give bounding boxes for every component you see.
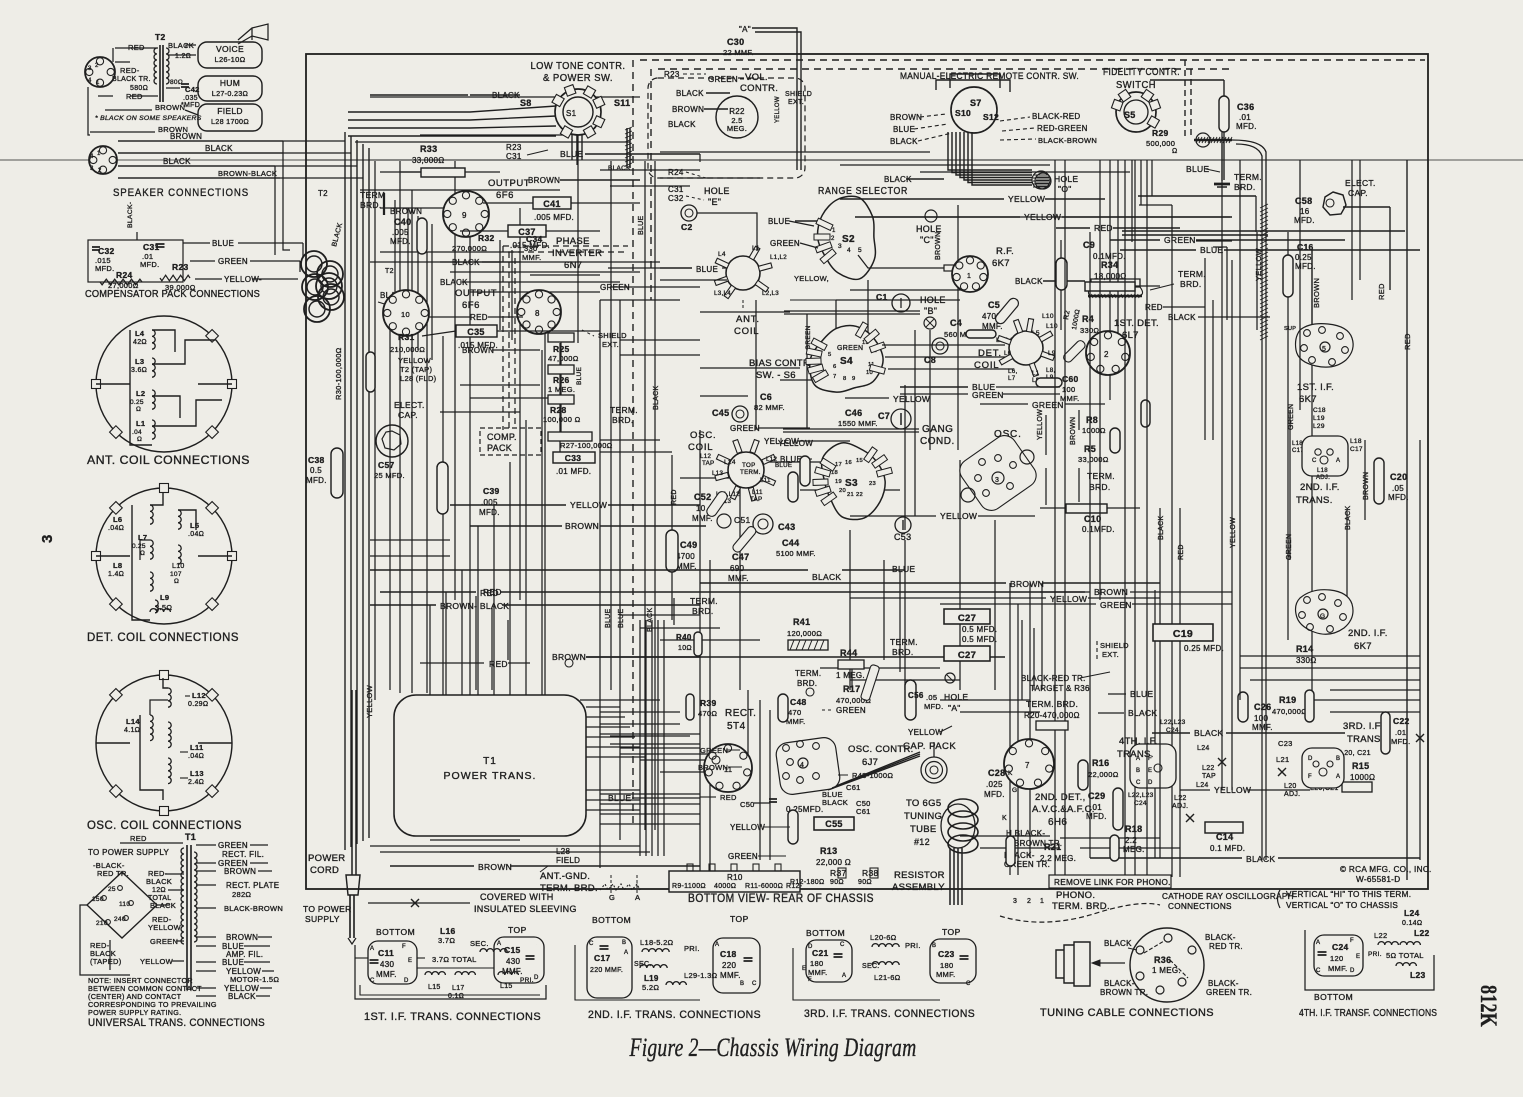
svg-text:D: D: [1350, 968, 1355, 974]
svg-text:BOTTOM: BOTTOM: [806, 928, 845, 938]
svg-text:180: 180: [810, 959, 823, 968]
svg-text:2ND. I.F.: 2ND. I.F.: [1348, 628, 1388, 639]
svg-text:C11: C11: [378, 948, 394, 958]
svg-text:BLACK: BLACK: [647, 608, 654, 632]
svg-text:TUNING: TUNING: [904, 811, 942, 822]
svg-text:L11: L11: [752, 489, 763, 496]
svg-text:10: 10: [401, 310, 410, 319]
svg-text:R8: R8: [1086, 415, 1098, 425]
svg-text:VOL.: VOL.: [745, 72, 768, 83]
svg-text:2: 2: [1027, 898, 1031, 905]
svg-text:20: 20: [839, 488, 846, 494]
svg-text:TERM.: TERM.: [1178, 269, 1206, 279]
svg-text:L17: L17: [452, 985, 465, 992]
svg-text:0.25: 0.25: [1295, 253, 1312, 262]
svg-text:C32: C32: [98, 246, 115, 256]
svg-text:0.29Ω: 0.29Ω: [188, 701, 208, 708]
svg-text:#12: #12: [914, 837, 930, 847]
svg-text:"A": "A": [739, 25, 751, 34]
svg-text:RED: RED: [470, 313, 488, 322]
svg-text:L20, C21: L20, C21: [1340, 750, 1371, 757]
svg-text:E: E: [1356, 954, 1360, 960]
svg-text:BLUE: BLUE: [892, 564, 915, 574]
svg-text:MFD.: MFD.: [390, 237, 411, 246]
svg-text:4.1Ω: 4.1Ω: [124, 727, 140, 734]
svg-text:C28: C28: [988, 768, 1005, 778]
svg-text:R24: R24: [116, 270, 133, 280]
svg-text:2: 2: [95, 63, 99, 69]
svg-text:RED: RED: [1178, 544, 1185, 560]
svg-text:C: C: [370, 978, 375, 984]
svg-text:210,000Ω: 210,000Ω: [390, 345, 425, 354]
svg-text:ADJ.: ADJ.: [1316, 475, 1330, 481]
svg-text:.01: .01: [1395, 728, 1406, 737]
svg-text:R15: R15: [1352, 761, 1369, 771]
svg-text:5T4: 5T4: [727, 721, 746, 732]
svg-text:GREEN: GREEN: [972, 390, 1004, 400]
svg-text:R18: R18: [1125, 824, 1142, 834]
svg-text:D: D: [1308, 756, 1313, 762]
svg-text:TARGET & R36: TARGET & R36: [1030, 684, 1090, 693]
svg-text:"B": "B": [924, 306, 937, 316]
svg-text:GREEN: GREEN: [150, 937, 178, 946]
svg-text:C48: C48: [790, 697, 807, 707]
svg-text:L22,L23: L22,L23: [1160, 719, 1186, 726]
svg-text:PRI.: PRI.: [1368, 951, 1382, 958]
svg-text:.005 MFD.: .005 MFD.: [534, 213, 574, 222]
svg-text:6H6: 6H6: [1048, 817, 1067, 828]
svg-text:K: K: [1008, 770, 1013, 777]
svg-text:TERM. BRD.: TERM. BRD.: [1026, 699, 1078, 709]
svg-text:R12-180Ω: R12-180Ω: [790, 879, 824, 886]
svg-text:25: 25: [108, 886, 116, 893]
svg-text:C4: C4: [950, 318, 962, 328]
svg-text:L2,L3: L2,L3: [762, 290, 779, 297]
svg-text:3.7Ω: 3.7Ω: [438, 936, 455, 945]
svg-text:16: 16: [845, 460, 852, 466]
svg-text:C47: C47: [732, 552, 749, 562]
svg-text:R41: R41: [793, 617, 810, 627]
svg-text:BROWN- BLACK: BROWN- BLACK: [440, 601, 509, 611]
svg-text:0.1 MFD.: 0.1 MFD.: [1210, 844, 1245, 853]
svg-text:TOP: TOP: [742, 462, 756, 469]
svg-text:23: 23: [869, 481, 876, 487]
svg-text:L24: L24: [1196, 782, 1209, 789]
svg-text:COMP.: COMP.: [487, 432, 517, 442]
svg-text:82 MMF.: 82 MMF.: [754, 403, 785, 412]
svg-text:OSC.: OSC.: [690, 430, 716, 441]
svg-text:TERM. BRD.: TERM. BRD.: [1052, 901, 1110, 912]
svg-text:S11: S11: [614, 98, 630, 108]
svg-text:L26-10Ω: L26-10Ω: [214, 55, 245, 64]
svg-text:BROWN: BROWN: [1094, 587, 1128, 597]
svg-text:MMF.: MMF.: [786, 717, 806, 726]
svg-text:5: 5: [1322, 346, 1326, 353]
svg-text:GREEN: GREEN: [837, 345, 863, 352]
svg-text:1000Ω: 1000Ω: [1350, 773, 1375, 782]
svg-text:2.2: 2.2: [1125, 836, 1137, 845]
svg-text:5100 MMF.: 5100 MMF.: [776, 549, 816, 558]
svg-text:C61: C61: [846, 783, 861, 792]
svg-text:L20-6Ω: L20-6Ω: [870, 933, 897, 942]
svg-text:"C": "C": [920, 235, 934, 245]
svg-text:K: K: [1002, 815, 1007, 822]
svg-text:R36: R36: [1154, 955, 1171, 965]
svg-text:TO POWER: TO POWER: [303, 904, 352, 914]
svg-text:1550 MMF.: 1550 MMF.: [838, 419, 878, 428]
svg-text:L14: L14: [126, 717, 140, 726]
svg-text:A: A: [1316, 940, 1320, 946]
svg-text:C21: C21: [812, 948, 829, 958]
svg-text:ELECT.: ELECT.: [1345, 178, 1376, 188]
svg-text:BLACK-: BLACK-: [1205, 933, 1236, 942]
svg-text:TERM.: TERM.: [740, 469, 761, 476]
svg-text:YELLOW: YELLOW: [730, 823, 765, 832]
svg-text:BLUE: BLUE: [1200, 245, 1223, 255]
svg-text:110: 110: [119, 901, 130, 908]
svg-text:2ND. DET.,: 2ND. DET.,: [1035, 792, 1086, 803]
svg-text:C: C: [966, 981, 971, 987]
svg-text:MFD.: MFD.: [924, 702, 944, 711]
svg-text:C27: C27: [958, 613, 976, 624]
svg-text:A: A: [497, 941, 501, 947]
svg-text:BOTTOM: BOTTOM: [1314, 992, 1353, 1002]
svg-text:R24: R24: [668, 168, 684, 177]
svg-text:C61: C61: [856, 807, 871, 816]
svg-text:TAP: TAP: [750, 496, 762, 503]
svg-text:.05: .05: [1392, 484, 1404, 493]
svg-text:BLACK-BROWN: BLACK-BROWN: [1038, 136, 1097, 145]
svg-text:3: 3: [88, 66, 92, 72]
svg-text:CAP.: CAP.: [398, 410, 418, 420]
svg-text:BOTTOM: BOTTOM: [592, 915, 631, 925]
svg-text:CAP. PACK: CAP. PACK: [903, 741, 956, 752]
svg-text:HUM: HUM: [220, 78, 240, 88]
svg-text:RECT. FIL.: RECT. FIL.: [222, 850, 264, 859]
svg-text:S3: S3: [845, 478, 858, 489]
svg-text:1: 1: [1040, 898, 1044, 905]
svg-text:HOLE: HOLE: [704, 186, 730, 196]
svg-text:240: 240: [114, 916, 126, 923]
svg-text:MFD.: MFD.: [1388, 493, 1409, 502]
svg-text:3.5Ω: 3.5Ω: [155, 603, 172, 612]
svg-text:FIELD: FIELD: [556, 856, 580, 865]
svg-text:BROWN: BROWN: [565, 521, 599, 531]
svg-text:UNIVERSAL TRANS. CONNECTIONS: UNIVERSAL TRANS. CONNECTIONS: [88, 1017, 265, 1029]
svg-text:L11: L11: [190, 743, 203, 752]
svg-text:EXT.: EXT.: [1102, 650, 1119, 659]
svg-text:C56: C56: [908, 691, 924, 700]
svg-text:C57: C57: [378, 460, 395, 470]
svg-text:BLUE: BLUE: [775, 462, 792, 469]
svg-text:C10: C10: [1084, 514, 1101, 524]
svg-text:.04Ω: .04Ω: [188, 753, 204, 760]
svg-text:ANT.: ANT.: [736, 314, 760, 325]
svg-text:BLACK: BLACK: [890, 137, 918, 146]
svg-text:L6: L6: [1004, 350, 1012, 357]
svg-text:BLACK: BLACK: [608, 165, 631, 172]
svg-text:GREEN: GREEN: [1164, 235, 1196, 245]
svg-text:BROWN: BROWN: [226, 933, 258, 942]
svg-text:L13: L13: [190, 769, 204, 778]
svg-text:EXT.: EXT.: [788, 99, 804, 106]
svg-text:6K7: 6K7: [1354, 641, 1372, 652]
svg-text:MFD.: MFD.: [479, 508, 500, 517]
svg-text:L1: L1: [1032, 370, 1040, 377]
svg-text:S8: S8: [520, 98, 532, 108]
svg-text:4: 4: [800, 762, 804, 769]
svg-text:33,000Ω: 33,000Ω: [412, 156, 445, 165]
svg-text:R4: R4: [1082, 314, 1094, 324]
svg-text:S1: S1: [566, 109, 577, 118]
svg-text:ELECT.: ELECT.: [394, 400, 425, 410]
svg-text:YELLOW: YELLOW: [148, 923, 182, 932]
svg-text:PRI.: PRI.: [905, 941, 921, 950]
svg-text:YELLOW: YELLOW: [1024, 212, 1061, 222]
svg-text:DET.: DET.: [978, 348, 1002, 359]
svg-text:BLACK: BLACK: [1246, 854, 1275, 864]
svg-text:SUP: SUP: [1284, 326, 1296, 332]
svg-text:18,000Ω: 18,000Ω: [1094, 272, 1127, 281]
svg-text:TERM.: TERM.: [1087, 471, 1115, 481]
svg-text:R13: R13: [820, 846, 837, 856]
svg-text:BLUE: BLUE: [212, 239, 234, 248]
svg-text:C22: C22: [1393, 716, 1410, 726]
svg-text:TAP: TAP: [702, 460, 714, 467]
svg-text:CONTR.: CONTR.: [740, 83, 778, 94]
svg-text:COIL: COIL: [734, 326, 759, 337]
svg-text:.04Ω: .04Ω: [188, 531, 204, 538]
svg-text:F: F: [808, 977, 812, 983]
svg-text:DET. COIL CONNECTIONS: DET. COIL CONNECTIONS: [87, 632, 239, 644]
svg-text:MEG.: MEG.: [1123, 845, 1145, 854]
svg-text:C24: C24: [1134, 800, 1147, 807]
svg-text:C24: C24: [1332, 942, 1349, 952]
svg-text:L20: L20: [1284, 783, 1297, 790]
svg-text:BRD.: BRD.: [612, 415, 634, 425]
svg-text:S2: S2: [842, 234, 855, 245]
svg-text:L22,L23: L22,L23: [1128, 792, 1154, 799]
svg-text:L9: L9: [160, 593, 169, 602]
svg-text:R19: R19: [1279, 695, 1296, 705]
svg-text:GREEN: GREEN: [1100, 600, 1132, 610]
svg-text:1ST. DET.: 1ST. DET.: [1114, 318, 1159, 329]
svg-text:C46: C46: [845, 408, 862, 418]
svg-text:1ST. I.F. TRANS. CONNECTIONS: 1ST. I.F. TRANS. CONNECTIONS: [364, 1011, 541, 1023]
svg-text:GREEN: GREEN: [218, 841, 248, 850]
svg-text:L28: L28: [556, 847, 570, 856]
svg-text:BLACK-RED: BLACK-RED: [1032, 112, 1081, 121]
svg-text:C23: C23: [1278, 739, 1293, 748]
svg-text:22,000Ω: 22,000Ω: [1088, 770, 1119, 779]
svg-text:19: 19: [835, 479, 842, 485]
svg-text:RED: RED: [489, 659, 508, 669]
svg-text:C8: C8: [924, 355, 936, 365]
svg-text:16: 16: [1300, 207, 1310, 216]
svg-text:W-65581-D: W-65581-D: [1356, 875, 1400, 884]
svg-text:GREEN: GREEN: [836, 706, 866, 715]
svg-text:BROWN: BROWN: [155, 103, 185, 112]
svg-text:BROWN: BROWN: [552, 652, 586, 662]
svg-text:GANG: GANG: [922, 424, 953, 435]
svg-text:C: C: [589, 941, 594, 947]
svg-text:3RD. I.F. TRANS. CONNECTIONS: 3RD. I.F. TRANS. CONNECTIONS: [804, 1008, 975, 1020]
svg-text:R28: R28: [550, 405, 567, 415]
svg-text:C: C: [1316, 968, 1321, 974]
svg-text:8: 8: [843, 376, 847, 382]
svg-text:SPEAKER CONNECTIONS: SPEAKER CONNECTIONS: [113, 187, 249, 199]
svg-text:S5: S5: [1124, 110, 1136, 120]
svg-text:C27: C27: [958, 650, 976, 661]
svg-text:RECT.: RECT.: [725, 708, 756, 719]
svg-text:BLACK: BLACK: [146, 877, 172, 886]
svg-text:L22: L22: [1414, 928, 1430, 938]
svg-text:SW. - S6: SW. - S6: [756, 370, 796, 381]
svg-text:220 MMF.: 220 MMF.: [590, 967, 623, 974]
svg-text:2ND. I.F.: 2ND. I.F.: [1300, 482, 1340, 493]
svg-text:RED: RED: [1094, 223, 1113, 233]
svg-text:© RCA MFG. CO., INC.: © RCA MFG. CO., INC.: [1340, 865, 1432, 874]
svg-text:RANGE SELECTOR: RANGE SELECTOR: [818, 185, 908, 197]
svg-text:YELLOW: YELLOW: [398, 356, 432, 365]
svg-text:C29: C29: [1088, 791, 1105, 801]
svg-text:22: 22: [856, 492, 863, 498]
svg-text:A: A: [370, 946, 374, 952]
svg-text:YELLOW: YELLOW: [570, 500, 607, 510]
svg-text:C: C: [1136, 780, 1141, 786]
svg-text:R23: R23: [172, 262, 189, 272]
svg-text:OUTPUT: OUTPUT: [488, 178, 530, 189]
svg-text:L6,: L6,: [1008, 368, 1018, 375]
svg-text:L15: L15: [428, 984, 441, 991]
svg-text:12Ω: 12Ω: [152, 887, 166, 894]
svg-text:S10: S10: [955, 108, 971, 118]
svg-text:33,000Ω: 33,000Ω: [1078, 455, 1109, 464]
svg-text:BLUE: BLUE: [768, 217, 790, 226]
svg-text:LOW TONE CONTR.: LOW TONE CONTR.: [531, 61, 626, 72]
svg-text:YELLOW: YELLOW: [940, 511, 977, 521]
svg-text:812K: 812K: [1476, 985, 1501, 1027]
svg-text:C: C: [752, 981, 757, 987]
svg-text:HOLE: HOLE: [1054, 174, 1078, 184]
svg-text:C36: C36: [1237, 102, 1254, 112]
svg-text:R34: R34: [1101, 260, 1118, 270]
svg-text:500,000: 500,000: [1146, 139, 1175, 148]
svg-text:B: B: [1136, 768, 1140, 774]
svg-text:SHIELD: SHIELD: [785, 91, 812, 98]
svg-text:D: D: [404, 978, 409, 984]
svg-text:.01: .01: [1239, 113, 1251, 122]
svg-text:TO POWER SUPPLY: TO POWER SUPPLY: [88, 848, 169, 857]
svg-text:L24: L24: [1404, 908, 1420, 918]
svg-text:BROWN: BROWN: [890, 113, 922, 122]
svg-text:R31: R31: [398, 332, 415, 342]
svg-text:"A": "A": [948, 703, 961, 713]
svg-text:5: 5: [858, 247, 862, 254]
svg-text:L19: L19: [644, 974, 659, 983]
svg-text:C31: C31: [668, 185, 684, 194]
svg-text:SEC.: SEC.: [862, 963, 880, 970]
svg-text:2.2 MEG.: 2.2 MEG.: [1040, 854, 1076, 863]
svg-text:4000Ω: 4000Ω: [714, 883, 736, 890]
svg-text:D: D: [534, 975, 539, 981]
svg-text:MMF.: MMF.: [522, 253, 542, 262]
svg-text:4700: 4700: [676, 552, 695, 561]
svg-text:MOTOR-1.5Ω: MOTOR-1.5Ω: [230, 975, 279, 984]
svg-text:6: 6: [833, 364, 837, 370]
svg-text:L15: L15: [500, 983, 513, 990]
svg-text:C9: C9: [1083, 240, 1095, 250]
svg-text:C34: C34: [526, 234, 543, 244]
svg-text:MMF.: MMF.: [936, 970, 956, 979]
svg-text:210: 210: [96, 920, 108, 927]
svg-text:L19: L19: [1313, 415, 1325, 422]
svg-text:BLUE: BLUE: [1186, 164, 1209, 174]
svg-text:0.14Ω: 0.14Ω: [1402, 920, 1422, 927]
svg-text:S12: S12: [983, 112, 999, 122]
svg-text:C41: C41: [543, 199, 560, 209]
svg-text:E: E: [1148, 768, 1152, 774]
svg-text:3: 3: [995, 477, 999, 484]
svg-text:1.2Ω: 1.2Ω: [175, 53, 191, 60]
svg-text:L4: L4: [718, 251, 726, 258]
svg-text:C45: C45: [712, 408, 729, 418]
svg-text:L12: L12: [192, 691, 206, 700]
svg-text:L12: L12: [700, 453, 711, 460]
svg-text:GREEN: GREEN: [728, 852, 758, 861]
svg-text:F: F: [402, 944, 406, 950]
svg-text:L18-5.2Ω: L18-5.2Ω: [640, 938, 674, 947]
svg-text:C40: C40: [394, 217, 411, 227]
svg-text:HOLE: HOLE: [920, 295, 946, 305]
svg-text:R33: R33: [420, 144, 437, 154]
svg-text:BOTTOM VIEW- REAR OF CHASSIS: BOTTOM VIEW- REAR OF CHASSIS: [688, 893, 874, 905]
svg-text:1.4Ω: 1.4Ω: [108, 571, 124, 578]
svg-text:GREEN: GREEN: [770, 239, 800, 248]
svg-text:COIL: COIL: [688, 442, 713, 453]
svg-text:2: 2: [98, 168, 102, 174]
svg-text:470,000Ω: 470,000Ω: [1272, 707, 1307, 716]
svg-text:BLACK: BLACK: [1345, 506, 1352, 530]
svg-text:MFD.: MFD.: [1236, 122, 1257, 131]
svg-text:A: A: [1336, 458, 1340, 464]
svg-text:BLACK-: BLACK-: [1104, 979, 1135, 988]
svg-text:COMPENSATOR PACK CONNECTIONS: COMPENSATOR PACK CONNECTIONS: [85, 289, 260, 300]
svg-text:.035: .035: [183, 95, 198, 102]
svg-text:A: A: [624, 950, 628, 956]
svg-text:MFD.: MFD.: [1391, 737, 1411, 746]
svg-text:GREEN: GREEN: [730, 424, 760, 433]
svg-text:BRD.: BRD.: [797, 679, 817, 688]
svg-text:BLACK: BLACK: [228, 992, 256, 1001]
svg-text:INSULATED SLEEVING: INSULATED SLEEVING: [474, 904, 577, 914]
svg-text:GREEN: GREEN: [1032, 400, 1064, 410]
svg-text:R22: R22: [729, 107, 745, 116]
svg-text:YELLOW: YELLOW: [908, 728, 943, 737]
svg-text:BROWN: BROWN: [1363, 472, 1370, 500]
svg-text:Ω: Ω: [1172, 148, 1178, 155]
svg-text:C30: C30: [727, 37, 744, 47]
svg-text:GREEN: GREEN: [708, 75, 738, 84]
svg-text:C23: C23: [938, 949, 955, 959]
svg-text:RED-: RED-: [120, 66, 140, 75]
svg-text:180: 180: [940, 961, 953, 970]
svg-text:GREEN TR.: GREEN TR.: [1206, 988, 1252, 997]
svg-text:GREEN: GREEN: [600, 283, 630, 292]
svg-text:SUPPLY: SUPPLY: [305, 914, 340, 924]
svg-text:ANT.-GND.: ANT.-GND.: [540, 871, 590, 882]
svg-text:CONNECTIONS: CONNECTIONS: [1168, 902, 1232, 911]
